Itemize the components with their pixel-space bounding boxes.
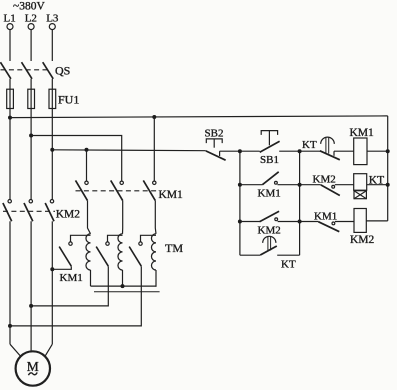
node right rail row2: [386, 183, 390, 187]
svg-text:L1: L1: [4, 13, 16, 25]
svg-text:KM2: KM2: [56, 209, 81, 221]
node left rail row2: [238, 183, 242, 187]
KM2 main linkage dashed: [3, 210, 55, 212]
svg-text:FU1: FU1: [58, 93, 79, 107]
wire L2 jumper to KM1 pole2: [31, 136, 122, 181]
contactor KM2 main pole2: [24, 200, 33, 222]
wire KM1 coil to right rail: [367, 150, 388, 152]
wire L3 to QS: [51, 30, 53, 61]
contact KM1 NC interlock row3: [300, 222, 354, 232]
wire L3 column to motor: [51, 221, 53, 344]
wire L1 column to motor: [9, 221, 11, 344]
contact KM2 NC interlock row2: [300, 185, 354, 196]
coil KM1: [354, 138, 367, 165]
button SB2 stop: [206, 139, 226, 160]
autotransformer TM coil2: [118, 234, 123, 270]
svg-text:KM2: KM2: [258, 225, 281, 237]
wire L2 to QS: [30, 30, 32, 61]
svg-text:KM2: KM2: [350, 234, 375, 246]
wire L3 diagonal to motor: [45, 344, 52, 356]
wire L2 column to motor: [30, 221, 32, 351]
svg-text:~380V: ~380V: [13, 1, 45, 13]
node right rail row1: [386, 149, 390, 153]
wire star rail: [91, 285, 157, 287]
terminal L2: [28, 24, 34, 30]
node branch to KM1 pole1: [85, 148, 89, 152]
coil KT: [354, 174, 367, 199]
wire L1 diagonal to motor: [10, 344, 21, 356]
coil KM2: [354, 209, 366, 233]
node mid rail row3: [298, 220, 302, 224]
svg-text:KT: KT: [302, 139, 317, 151]
wire column L1 to KM2: [9, 109, 11, 200]
contact KT delay NC row1: [320, 137, 340, 160]
wire QS to FU1 pole3: [51, 79, 53, 89]
wire KT coil to right rail: [367, 184, 388, 186]
node L1 junction: [8, 116, 12, 120]
node left rail row1: [238, 149, 242, 153]
svg-text:KM1: KM1: [159, 189, 184, 201]
contact KM1 star 3: [129, 235, 156, 266]
terminal L3: [49, 24, 55, 30]
contactor KM2 main pole3: [45, 200, 54, 222]
wire KM1 pole1 to coil1: [88, 201, 91, 234]
wire star1 to L3 column: [52, 266, 71, 269]
svg-text:SB1: SB1: [260, 154, 279, 166]
wire row1 to KT contact: [300, 150, 320, 152]
wire coil2 bottom: [122, 270, 124, 286]
node L3 junction: [50, 148, 54, 152]
wire coil1 bottom: [90, 270, 92, 286]
contactor KM2 main pole1: [3, 200, 12, 222]
wire KM1 pole3 to coil3: [154, 201, 157, 234]
node top rail to KM1 pole3: [152, 115, 156, 119]
wire control right rail: [387, 116, 389, 221]
label motor tilde: [28, 372, 37, 375]
fuse FU1 pole2: [28, 89, 35, 108]
wire control mid rail: [299, 151, 301, 221]
svg-text:KM1: KM1: [60, 272, 83, 284]
wire QS to FU1 pole2: [30, 79, 32, 89]
contact KM1 aux self-hold: [240, 172, 300, 185]
contactor KM1 main pole2: [111, 180, 124, 200]
node mid rail row2: [298, 183, 302, 187]
switch QS pole 2 blade: [22, 62, 33, 79]
svg-text:KM1: KM1: [258, 187, 281, 199]
autotransformer TM coil1: [86, 234, 91, 270]
wire SB1 to mid rail: [279, 150, 299, 152]
wire KT contact to KM1 coil: [334, 150, 354, 152]
button SB1 start: [260, 131, 280, 153]
svg-text:KM1: KM1: [350, 127, 375, 139]
contactor KM1 main pole1: [76, 180, 89, 200]
node star rail: [121, 284, 125, 288]
svg-text:L3: L3: [46, 13, 59, 25]
wire star3 tap down-left: [10, 266, 141, 326]
contact KT delay NO branch: [240, 222, 300, 256]
svg-text:KM2: KM2: [313, 174, 336, 186]
node star2 on L2: [29, 304, 33, 308]
wire L3 feed to control and KM1 pole1: [52, 149, 206, 152]
contact KM2 aux NO row3: [240, 211, 300, 221]
wire coil3 bottom: [155, 270, 157, 287]
node left rail row3: [238, 220, 242, 224]
wire KM1 pole2 to coil2: [122, 201, 124, 234]
svg-text:M: M: [27, 359, 39, 374]
wire column L2 to KM2: [30, 109, 32, 200]
contactor KM1 main pole3: [143, 180, 156, 200]
node star3 on L1: [8, 324, 12, 328]
svg-text:QS: QS: [55, 64, 70, 78]
wire down to KM1 pole3: [153, 117, 155, 181]
wire row1 to SB1: [240, 150, 260, 152]
contact KM1 star 2: [96, 235, 122, 266]
node L2 junction: [29, 134, 33, 138]
wire control left rail: [239, 151, 241, 255]
autotransformer TM coil3: [151, 234, 156, 270]
switch QS linkage dashed: [1, 69, 50, 71]
node star1 on L3: [50, 267, 54, 271]
motor M circle: [16, 351, 50, 385]
wire down to KM1 pole1: [86, 150, 88, 181]
KM1 main linkage dashed: [76, 190, 158, 192]
terminal L1: [7, 24, 13, 30]
wire star2 tap down-left: [31, 266, 108, 306]
wire KM2 coil to right rail: [366, 220, 387, 222]
node mid rail row1: [298, 149, 302, 153]
contact KM1 star 1: [59, 235, 90, 266]
svg-text:SB2: SB2: [205, 127, 224, 139]
svg-text:TM: TM: [165, 241, 183, 255]
wire SB2 to left rail: [220, 150, 240, 152]
switch QS pole 1 blade: [0, 62, 11, 79]
wire top rail to control circuit: [10, 116, 388, 118]
fuse FU1 pole3: [49, 89, 56, 108]
wire star rail lower: [94, 291, 160, 293]
fuse FU1 pole1: [7, 89, 14, 108]
svg-text:KT: KT: [281, 258, 296, 270]
wire QS to FU1 pole1: [9, 79, 11, 89]
wire column L3 to KM2: [51, 109, 53, 200]
svg-text:L2: L2: [25, 13, 37, 25]
switch QS pole 3 blade: [43, 62, 54, 79]
wire L1 to QS: [9, 30, 11, 61]
